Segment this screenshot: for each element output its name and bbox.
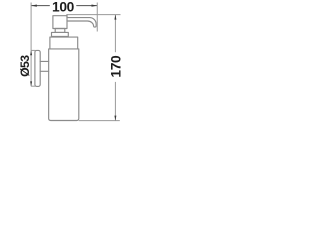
holder cup [49,49,79,121]
arrow dia53 down [30,81,32,86]
background [0,0,130,130]
extension line top (170) [67,14,121,16]
arrow 100 left [31,5,37,7]
dim line diameter 53 [30,50,32,86]
dim line 100 right segment [76,5,97,7]
extension line diameter-53 top [31,49,35,51]
extension line diameter-53 bottom [31,85,35,87]
arrow 170 up [114,15,116,20]
svg-text:170: 170 [108,55,123,78]
extension line bottom (170) [79,120,120,122]
svg-text:100: 100 [52,0,75,15]
pump head [53,16,67,29]
arrow 100 right [92,5,98,7]
arrow dia53 up [30,50,32,55]
dim line 100 left segment [31,5,50,7]
collar cap [52,32,69,36]
wall plate [35,50,40,86]
extension line right (100) at spout tip [96,3,98,32]
dim line 170 lower segment [114,82,116,121]
arrow 170 down [114,116,116,121]
dim line 170 upper segment [114,15,116,53]
spout tube [67,18,96,28]
extension line left (100) above plate [30,3,32,51]
spout stub [66,15,68,18]
bracket arm top line [40,60,48,62]
bracket arm bottom line [40,70,48,72]
bottle top [50,37,78,49]
svg-text:Ø53: Ø53 [18,55,32,77]
pump neck [55,29,65,33]
